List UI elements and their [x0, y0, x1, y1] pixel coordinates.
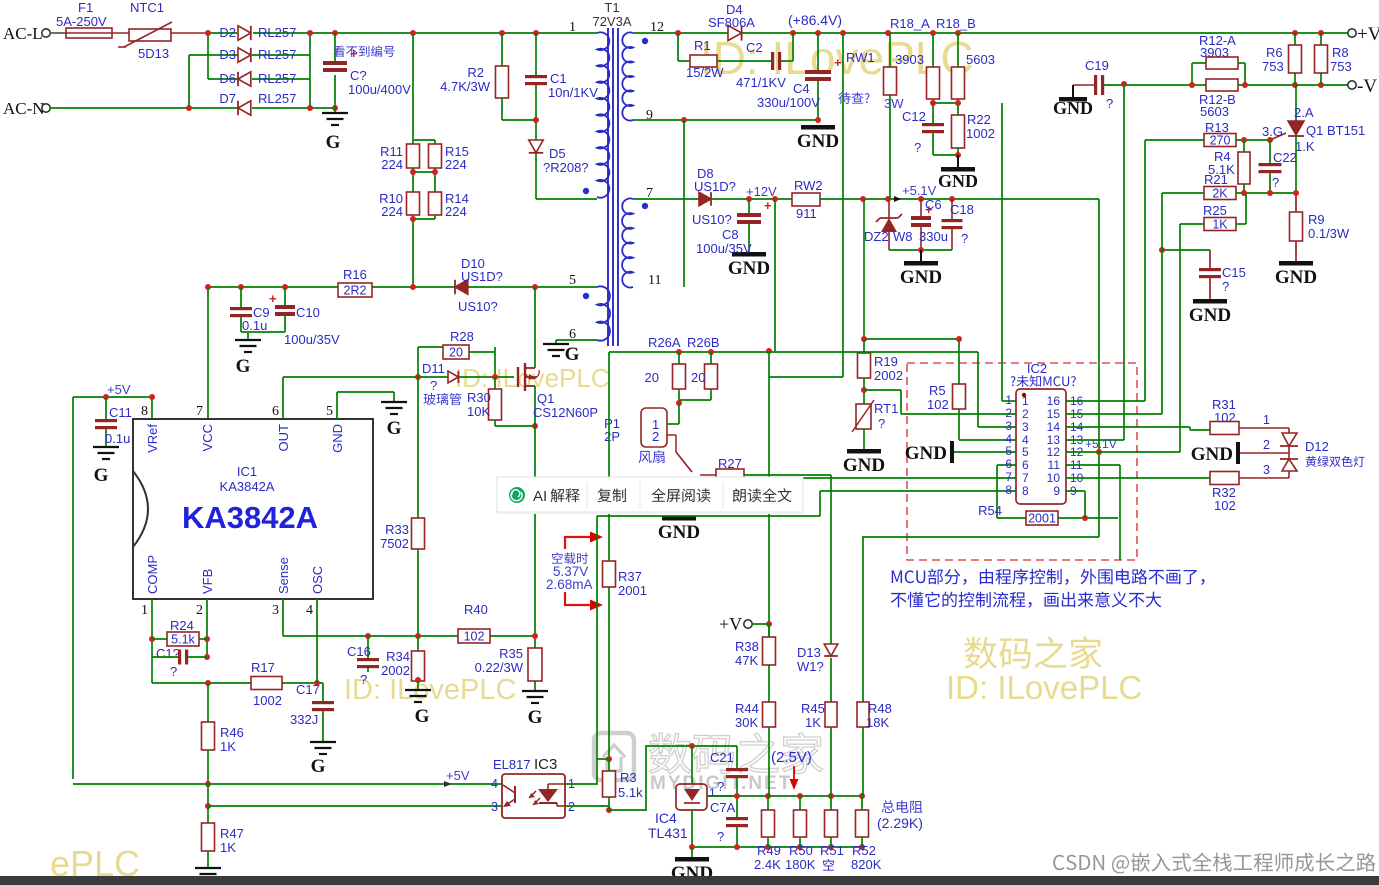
svg-text:C7A: C7A	[710, 800, 736, 815]
svg-text:G: G	[387, 418, 402, 439]
svg-text:4: 4	[306, 603, 313, 618]
svg-text:(+86.4V): (+86.4V)	[788, 12, 842, 28]
svg-text:R52: R52	[852, 843, 876, 858]
svg-text:C2: C2	[746, 40, 763, 55]
svg-text:W1?: W1?	[797, 659, 824, 674]
svg-text:OSC: OSC	[310, 566, 325, 594]
svg-text:R22: R22	[967, 112, 991, 127]
svg-text:5: 5	[1005, 444, 1012, 458]
svg-text:20: 20	[691, 370, 705, 385]
svg-text:R45: R45	[801, 701, 825, 716]
svg-text:GND: GND	[1189, 305, 1231, 326]
svg-text:100u/35V: 100u/35V	[284, 332, 340, 347]
svg-text:5603: 5603	[966, 52, 995, 67]
svg-text:RL257: RL257	[258, 25, 296, 40]
svg-text:C1: C1	[550, 71, 567, 86]
svg-text:G: G	[528, 707, 543, 728]
svg-text:332J: 332J	[290, 712, 318, 727]
svg-text:C4: C4	[793, 81, 810, 96]
svg-text:R26B: R26B	[687, 335, 720, 350]
svg-text:AI: AI	[533, 488, 547, 505]
svg-text:270: 270	[1210, 134, 1231, 148]
svg-text:102: 102	[927, 397, 949, 412]
svg-text:AC-L: AC-L	[3, 24, 43, 43]
svg-text:?: ?	[1222, 279, 1229, 294]
svg-text:IC4: IC4	[655, 810, 677, 826]
svg-text:G: G	[236, 356, 251, 377]
svg-text:R6: R6	[1266, 45, 1283, 60]
svg-text:9: 9	[1053, 484, 1060, 498]
svg-text:10: 10	[1047, 471, 1061, 485]
svg-text:G: G	[415, 706, 430, 727]
svg-text:1K: 1K	[805, 715, 821, 730]
svg-text:0.1u: 0.1u	[242, 318, 267, 333]
svg-text:W8: W8	[893, 229, 913, 244]
svg-text:C6: C6	[925, 197, 942, 212]
svg-text:6: 6	[272, 404, 279, 419]
svg-text:2.68mA: 2.68mA	[546, 577, 593, 592]
svg-text:NTC1: NTC1	[130, 0, 164, 15]
svg-text:1002: 1002	[966, 126, 995, 141]
svg-text:2R2: 2R2	[344, 284, 367, 298]
svg-text:GND: GND	[1053, 98, 1093, 118]
svg-text:3: 3	[1263, 463, 1270, 477]
svg-text:2.A: 2.A	[1294, 105, 1314, 120]
svg-text:R18_B: R18_B	[936, 16, 976, 31]
svg-text:R35: R35	[499, 646, 523, 661]
svg-text:224: 224	[381, 157, 403, 172]
svg-text:5: 5	[1022, 445, 1029, 459]
svg-text:7502: 7502	[380, 536, 409, 551]
svg-text:1: 1	[141, 603, 148, 618]
svg-text:?: ?	[717, 829, 724, 844]
svg-text:GND: GND	[797, 131, 839, 152]
svg-text:+5V: +5V	[107, 382, 131, 397]
svg-text:T1: T1	[604, 0, 619, 15]
svg-text:C10: C10	[296, 305, 320, 320]
svg-text:8: 8	[141, 404, 148, 419]
svg-text:G: G	[311, 756, 326, 777]
svg-text:R26A: R26A	[648, 335, 681, 350]
svg-text:6: 6	[1005, 457, 1012, 471]
svg-text:?: ?	[717, 779, 724, 794]
svg-text:R24: R24	[170, 618, 194, 633]
svg-text:16: 16	[1047, 394, 1061, 408]
svg-text:2001: 2001	[618, 583, 647, 598]
svg-text:1: 1	[1005, 393, 1012, 407]
svg-text:?: ?	[430, 378, 437, 393]
svg-text:?: ?	[914, 140, 921, 155]
svg-text:1K: 1K	[220, 739, 236, 754]
svg-text:7: 7	[196, 404, 203, 419]
svg-text:Q1 BT151: Q1 BT151	[1306, 123, 1365, 138]
svg-text:C?: C?	[350, 68, 367, 83]
svg-text:471/1KV: 471/1KV	[736, 75, 786, 90]
svg-text:2: 2	[196, 603, 203, 618]
svg-text:GND: GND	[1191, 444, 1233, 465]
svg-text:224: 224	[445, 204, 467, 219]
svg-text:IC3: IC3	[534, 756, 557, 773]
svg-text:47K: 47K	[735, 653, 758, 668]
svg-text:R37: R37	[618, 569, 642, 584]
svg-text:VCC: VCC	[200, 424, 215, 451]
svg-text:COMP: COMP	[145, 555, 160, 594]
svg-text:2: 2	[1263, 438, 1270, 452]
svg-text:2P: 2P	[604, 429, 620, 444]
svg-text:G: G	[565, 344, 580, 365]
svg-text:VFB: VFB	[200, 569, 215, 594]
svg-text:R40: R40	[464, 602, 488, 617]
svg-text:5A-250V: 5A-250V	[56, 14, 107, 29]
svg-text:F1: F1	[78, 0, 93, 15]
svg-text:15/2W: 15/2W	[686, 65, 724, 80]
svg-text:R19: R19	[874, 354, 898, 369]
svg-text:C21: C21	[710, 750, 734, 765]
svg-text:12: 12	[1047, 445, 1061, 459]
svg-text:C18: C18	[950, 202, 974, 217]
svg-text:10n/1KV: 10n/1KV	[548, 85, 598, 100]
svg-text:+5.1V: +5.1V	[902, 183, 937, 198]
svg-text:2002: 2002	[874, 368, 903, 383]
svg-text:5D13: 5D13	[138, 46, 169, 61]
svg-text:R47: R47	[220, 826, 244, 841]
svg-text:R18_A: R18_A	[890, 16, 930, 31]
svg-text:1K: 1K	[220, 840, 236, 855]
svg-text:D11: D11	[422, 361, 445, 376]
svg-text:R54: R54	[978, 503, 1002, 518]
svg-text:102: 102	[464, 630, 485, 644]
svg-text:D7: D7	[219, 91, 236, 106]
svg-text:US10?: US10?	[458, 299, 498, 314]
svg-text:RL257: RL257	[258, 47, 296, 62]
svg-text:(2.29K): (2.29K)	[877, 815, 923, 831]
svg-text:R33: R33	[385, 522, 409, 537]
svg-text:OUT: OUT	[276, 424, 291, 452]
svg-text:102: 102	[1214, 498, 1236, 513]
svg-text:72V3A: 72V3A	[592, 14, 631, 29]
svg-text:15: 15	[1047, 407, 1061, 421]
svg-text:3: 3	[272, 603, 279, 618]
svg-text:180K: 180K	[785, 857, 816, 872]
svg-text:100u/35V: 100u/35V	[696, 241, 752, 256]
svg-text:CS12N60P: CS12N60P	[533, 405, 598, 420]
svg-text:1: 1	[709, 786, 716, 800]
svg-text:?: ?	[878, 416, 885, 431]
svg-text:+: +	[764, 198, 772, 213]
svg-text:0.1/3W: 0.1/3W	[1308, 226, 1350, 241]
svg-text:+5.1V: +5.1V	[1085, 437, 1117, 451]
svg-text:5: 5	[326, 404, 333, 419]
svg-text:GND: GND	[728, 258, 770, 279]
svg-text:R38: R38	[735, 639, 759, 654]
svg-text:C12: C12	[902, 109, 926, 124]
svg-text:R16: R16	[343, 267, 367, 282]
svg-text:VRef: VRef	[145, 424, 160, 453]
svg-text:D12: D12	[1305, 439, 1329, 454]
svg-text:IC2: IC2	[1027, 361, 1047, 376]
svg-text:1002: 1002	[253, 693, 282, 708]
svg-text:224: 224	[445, 157, 467, 172]
svg-text:?: ?	[1272, 175, 1279, 190]
svg-text:4: 4	[491, 777, 498, 791]
svg-text:+V: +V	[1357, 24, 1379, 45]
svg-text:6: 6	[1022, 458, 1029, 472]
svg-text:2: 2	[652, 429, 659, 444]
svg-text:RW1: RW1	[846, 50, 875, 65]
svg-text:GND: GND	[843, 455, 885, 476]
svg-text:224: 224	[381, 204, 403, 219]
svg-text:10K: 10K	[467, 404, 490, 419]
svg-text:KA3842A: KA3842A	[182, 500, 318, 535]
svg-text:D6: D6	[219, 71, 236, 86]
svg-text:2K: 2K	[1212, 187, 1228, 201]
svg-text:?: ?	[961, 231, 968, 246]
svg-text:+: +	[350, 46, 358, 61]
svg-text:?: ?	[360, 672, 367, 687]
svg-text:C8: C8	[722, 227, 739, 242]
svg-text:R50: R50	[789, 843, 813, 858]
svg-text:GND: GND	[330, 424, 345, 453]
svg-text:R44: R44	[735, 701, 759, 716]
svg-text:2.4K: 2.4K	[754, 857, 781, 872]
svg-text:R25: R25	[1203, 203, 1227, 218]
svg-text:R34: R34	[386, 649, 410, 664]
svg-text:C17: C17	[296, 682, 320, 697]
svg-text:RL257: RL257	[258, 91, 296, 106]
svg-text:7: 7	[1005, 470, 1012, 484]
svg-text:R48: R48	[868, 701, 892, 716]
svg-text:ID: ILovePLC: ID: ILovePLC	[946, 669, 1142, 706]
svg-text:18K: 18K	[866, 715, 889, 730]
svg-text:R8: R8	[1332, 45, 1349, 60]
svg-text:330u: 330u	[919, 229, 948, 244]
svg-text:-V: -V	[1357, 76, 1377, 97]
svg-text:3: 3	[1005, 419, 1012, 433]
svg-text:+5V: +5V	[446, 768, 470, 783]
svg-text:3.G: 3.G	[1262, 124, 1283, 139]
svg-text:SF806A: SF806A	[708, 15, 755, 30]
svg-text:C19: C19	[1085, 58, 1109, 73]
svg-text:RT1: RT1	[874, 401, 898, 416]
svg-text:911: 911	[796, 206, 817, 221]
svg-text:DZ2: DZ2	[864, 229, 889, 244]
svg-text:D13: D13	[797, 645, 821, 660]
svg-text:GND: GND	[900, 267, 942, 288]
svg-text:4.7K/3W: 4.7K/3W	[440, 79, 491, 94]
svg-text:1: 1	[569, 20, 576, 35]
svg-text:C22: C22	[1273, 150, 1297, 165]
svg-text:100u/400V: 100u/400V	[348, 82, 411, 97]
svg-text:R28: R28	[450, 329, 474, 344]
svg-text:D2: D2	[219, 25, 236, 40]
svg-text:20: 20	[449, 346, 463, 360]
svg-text:820K: 820K	[851, 857, 882, 872]
svg-text:R49: R49	[757, 843, 781, 858]
svg-text:GND: GND	[905, 443, 947, 464]
svg-text:R9: R9	[1308, 212, 1325, 227]
svg-text:330u/100V: 330u/100V	[757, 95, 820, 110]
svg-text:8: 8	[1022, 484, 1029, 498]
svg-text:R46: R46	[220, 725, 244, 740]
svg-text:0.1u: 0.1u	[105, 431, 130, 446]
svg-text:US1D?: US1D?	[461, 269, 503, 284]
svg-text:+: +	[834, 55, 842, 70]
svg-text:5: 5	[569, 273, 576, 288]
svg-text:1.K: 1.K	[1295, 139, 1315, 154]
svg-text:RL257: RL257	[258, 71, 296, 86]
svg-text:30K: 30K	[735, 715, 758, 730]
svg-text:2002: 2002	[381, 663, 410, 678]
svg-text:2: 2	[1005, 406, 1012, 420]
svg-text:2: 2	[568, 800, 575, 814]
svg-text:AC-N: AC-N	[3, 99, 45, 118]
svg-text:EL817: EL817	[493, 757, 531, 772]
svg-text:C15: C15	[1222, 265, 1246, 280]
svg-text:GND: GND	[658, 522, 700, 543]
svg-text:11: 11	[1048, 458, 1061, 472]
svg-text:1K: 1K	[1212, 218, 1228, 232]
svg-text:3903: 3903	[895, 52, 924, 67]
svg-text:C11: C11	[109, 405, 132, 420]
svg-text:2: 2	[1022, 407, 1029, 421]
svg-text:+: +	[269, 291, 277, 306]
svg-text:753: 753	[1262, 59, 1284, 74]
svg-text:20: 20	[645, 370, 659, 385]
svg-text:2001: 2001	[1028, 512, 1056, 526]
svg-text:?: ?	[1106, 96, 1113, 111]
svg-text:IC1: IC1	[237, 464, 257, 479]
svg-text:C16: C16	[347, 644, 371, 659]
svg-text:GND: GND	[1275, 267, 1317, 288]
svg-text:14: 14	[1047, 420, 1061, 434]
svg-text:R3: R3	[620, 770, 637, 785]
svg-text:R21: R21	[1204, 172, 1228, 187]
svg-text:G: G	[94, 465, 109, 486]
svg-text:5.1k: 5.1k	[171, 633, 195, 647]
svg-text:TL431: TL431	[648, 825, 688, 841]
svg-text:GND: GND	[938, 171, 978, 191]
svg-text:C1?: C1?	[156, 646, 180, 661]
svg-text:11: 11	[648, 273, 661, 288]
svg-text:R51: R51	[820, 843, 844, 858]
svg-text:R17: R17	[251, 660, 275, 675]
svg-text:Q1: Q1	[537, 391, 554, 406]
svg-text:1: 1	[1263, 413, 1270, 427]
svg-text:7: 7	[1022, 471, 1029, 485]
svg-text:D5: D5	[549, 146, 566, 161]
svg-text:R2: R2	[467, 65, 484, 80]
svg-text:D3: D3	[219, 47, 236, 62]
svg-text:753: 753	[1330, 59, 1352, 74]
svg-text:R30: R30	[467, 390, 491, 405]
svg-text:5.1k: 5.1k	[618, 785, 643, 800]
svg-text:KA3842A: KA3842A	[220, 479, 275, 494]
svg-text:R5: R5	[929, 383, 946, 398]
svg-text:0.22/3W: 0.22/3W	[475, 660, 524, 675]
svg-text:3: 3	[491, 800, 498, 814]
svg-text:3: 3	[1022, 420, 1029, 434]
svg-text:R1: R1	[694, 38, 711, 53]
svg-text:G: G	[326, 132, 341, 153]
svg-text:Sense: Sense	[276, 557, 291, 594]
svg-text:?R208?: ?R208?	[543, 160, 589, 175]
svg-text:8: 8	[1005, 483, 1012, 497]
svg-text:US10?: US10?	[692, 212, 732, 227]
svg-text:5603: 5603	[1200, 104, 1229, 119]
svg-text:(2.5V): (2.5V)	[771, 749, 812, 766]
svg-text:+V: +V	[719, 614, 742, 634]
svg-text:US1D?: US1D?	[694, 179, 736, 194]
svg-text:RW2: RW2	[794, 178, 823, 193]
svg-text:?: ?	[170, 664, 177, 679]
